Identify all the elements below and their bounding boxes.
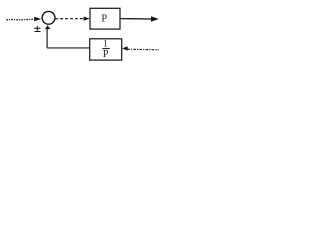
wire: summing junction to block P (dashed) bbox=[55, 18, 84, 20]
block 1/P (rectangle) bbox=[90, 39, 122, 60]
arrowhead: input into summing junction bbox=[34, 17, 41, 22]
wire: feedback vertical segment bbox=[46, 28, 48, 48]
block P (rectangle) bbox=[90, 8, 120, 29]
label ± at summing junction bbox=[34, 26, 40, 32]
arrowhead: into block P bbox=[84, 17, 90, 21]
arrowhead: feedback into bottom of summing junction bbox=[45, 25, 50, 29]
svg-text:1: 1 bbox=[103, 38, 108, 48]
svg-text:P: P bbox=[103, 49, 109, 60]
wire: feedback horizontal segment to 1/P block bbox=[47, 47, 90, 49]
label 1/P fraction: bar bbox=[102, 48, 109, 50]
summing junction U1 (circle) bbox=[42, 11, 55, 24]
arrowhead: output bbox=[151, 16, 159, 22]
wire: input to 1/P from right edge (dash-dot) bbox=[127, 48, 159, 51]
svg-text:P: P bbox=[101, 14, 107, 25]
arrowhead: into right side of block 1/P bbox=[122, 46, 127, 51]
wire: reference input (dash-dot from left edge) bbox=[6, 18, 34, 21]
wire: output of block P bbox=[120, 18, 152, 20]
